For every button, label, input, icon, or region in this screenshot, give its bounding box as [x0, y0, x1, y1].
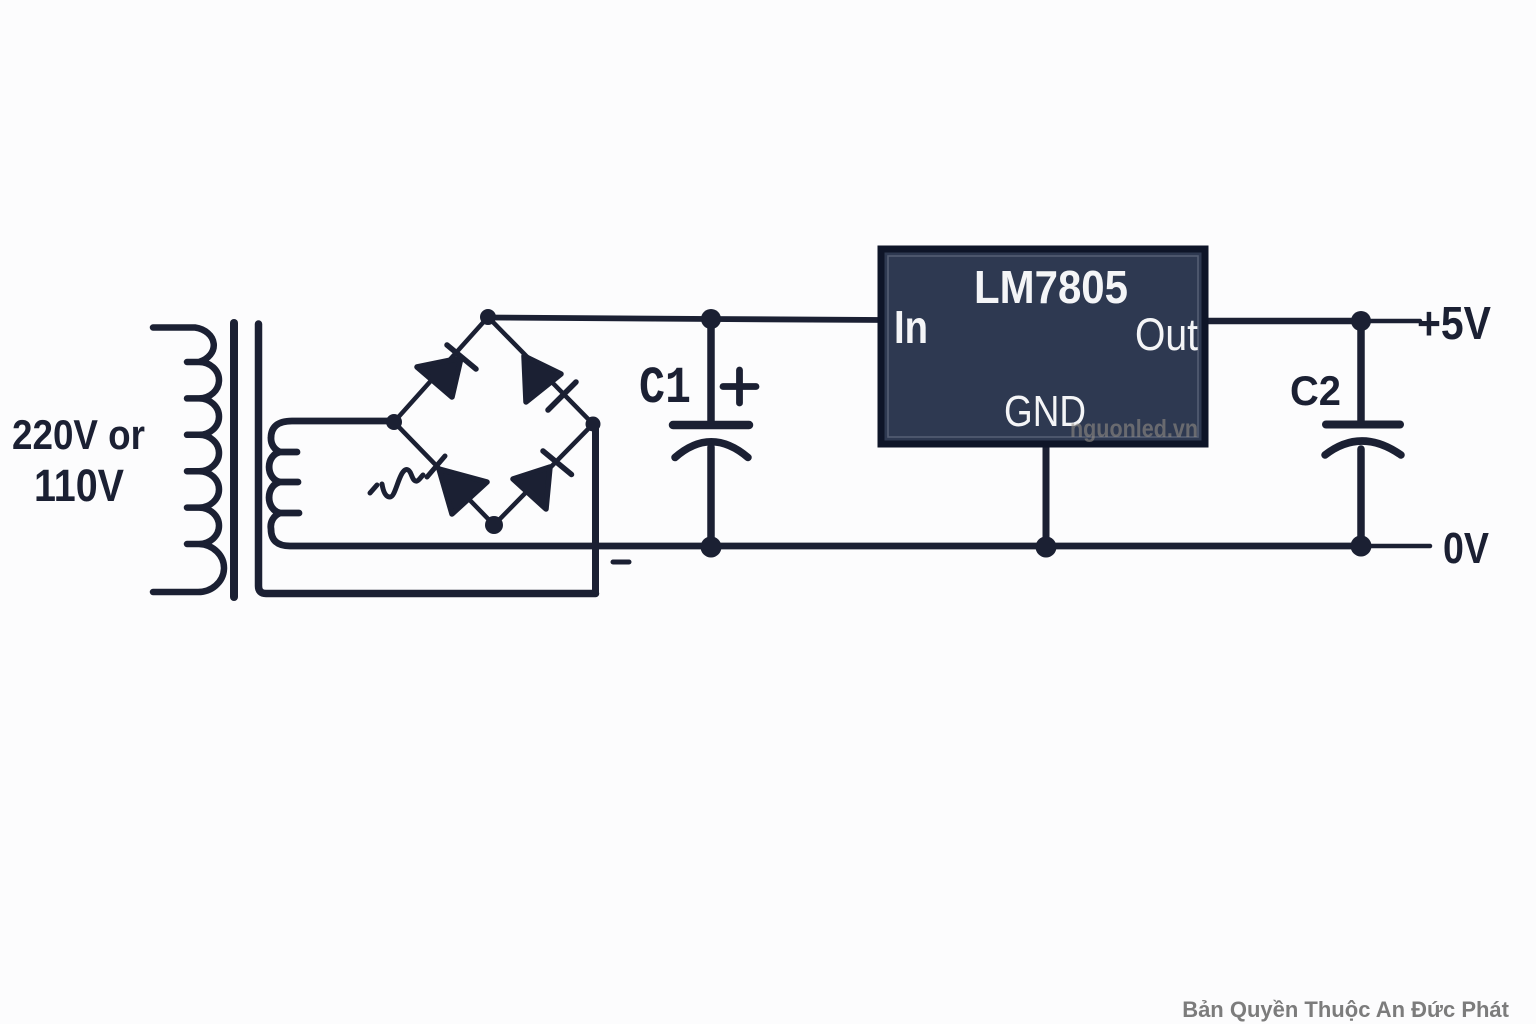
svg-text:220V or: 220V or	[12, 411, 145, 458]
svg-text:+5V: +5V	[1417, 297, 1491, 349]
svg-text:Out: Out	[1135, 309, 1198, 360]
svg-text:C2: C2	[1290, 367, 1341, 414]
svg-text:0V: 0V	[1443, 524, 1490, 573]
svg-text:LM7805: LM7805	[974, 261, 1128, 313]
svg-text:110V: 110V	[34, 460, 124, 511]
svg-text:Bản Quyền Thuộc An Đức Phát: Bản Quyền Thuộc An Đức Phát	[1182, 997, 1509, 1022]
svg-text:C1: C1	[639, 359, 691, 418]
svg-text:nguonled.vn: nguonled.vn	[1070, 415, 1198, 443]
svg-text:In: In	[894, 301, 928, 353]
